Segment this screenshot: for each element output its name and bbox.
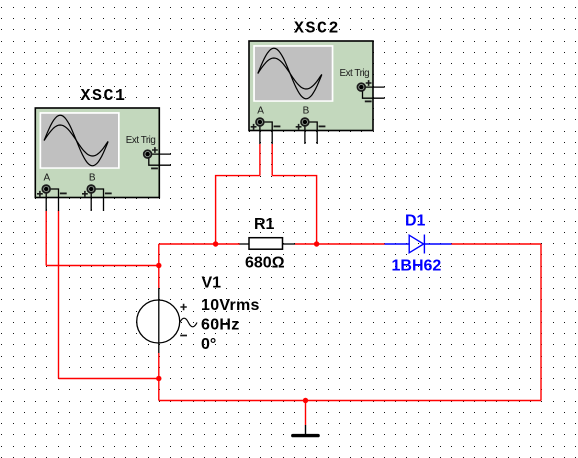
wire ground stub (305, 401, 307, 426)
svg-text:680Ω: 680Ω (245, 255, 285, 272)
junction ground node (303, 398, 308, 403)
oscilloscope XSC1 (35, 108, 171, 211)
wire XSC1 A- down (58, 211, 60, 379)
wire XSC1 A+ down from scope (45, 211, 47, 266)
svg-text:D1: D1 (405, 213, 426, 230)
wire R1 row right segment (295, 243, 385, 245)
svg-text:XSC1: XSC1 (81, 86, 127, 105)
svg-text:Ext Trig: Ext Trig (126, 135, 156, 146)
svg-text:0°: 0° (201, 336, 216, 353)
XSC1 channel A terminal (37, 173, 67, 212)
resistor R1 (240, 238, 296, 250)
wire main left vertical node to V1 top (158, 244, 160, 288)
svg-text:B: B (303, 106, 310, 117)
ground (293, 425, 318, 436)
wire bottom rail (159, 400, 541, 402)
XSC1 channel B terminal (82, 173, 112, 212)
svg-text:60Hz: 60Hz (201, 317, 240, 334)
wire XSC2 A+ jog left to R1 left node (216, 176, 260, 244)
junction node V1 bottom with XSC1 A- (156, 376, 161, 381)
oscilloscope XSC2 (249, 41, 385, 144)
XSC2 Ext Trig terminal (357, 80, 384, 101)
svg-text:R1: R1 (254, 216, 275, 233)
XSC2 channel A terminal (251, 106, 281, 145)
junction node R1 right with XSC2 A- (314, 241, 319, 246)
svg-text:10Vrms: 10Vrms (201, 297, 260, 314)
junction node V1 top with XSC1 A+ (156, 263, 161, 268)
ac voltage source V1 (137, 288, 197, 353)
XSC1 screen (40, 112, 120, 169)
svg-text:1BH62: 1BH62 (392, 258, 442, 275)
svg-text:B: B (89, 173, 96, 184)
wire right vertical (540, 244, 542, 401)
diode D1 (385, 235, 452, 254)
wire XSC1 A- horizontal to bottom node (59, 378, 159, 380)
XSC1 Ext Trig terminal (144, 147, 171, 168)
wire diode to right corner (452, 243, 542, 245)
svg-text:XSC2: XSC2 (294, 19, 340, 38)
XSC2 channel B terminal (296, 106, 326, 145)
wire XSC2 A- jog right to R1 right node (272, 176, 316, 244)
wire R1 row left segment (159, 243, 240, 245)
XSC2 screen (253, 45, 333, 102)
wire V1 bottom to bottom node (158, 353, 160, 401)
wire XSC2 A- down (271, 144, 273, 176)
svg-text:Ext Trig: Ext Trig (340, 68, 370, 79)
svg-text:A: A (257, 106, 264, 117)
wire XSC2 A+ down (259, 144, 261, 176)
svg-text:V1: V1 (202, 275, 222, 292)
wire XSC1 A+ horizontal to node (46, 265, 159, 267)
svg-text:A: A (44, 173, 51, 184)
junction node R1 left with XSC2 A+ (213, 241, 218, 246)
